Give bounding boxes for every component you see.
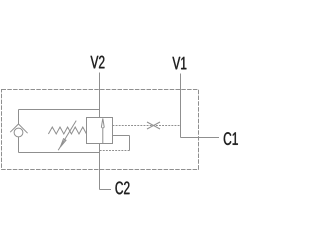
poppet stem wire	[102, 129, 104, 144]
wire: V1 port line	[180, 74, 182, 138]
check valve ball	[14, 128, 23, 137]
spring adjustment arrow head	[60, 139, 66, 147]
port label C1	[224, 132, 238, 145]
pilot drain dotted wire	[100, 150, 130, 152]
spring	[48, 127, 86, 134]
spring adjustment arrow shaft	[58, 121, 76, 151]
valve body dashed boundary	[2, 90, 199, 170]
port label V1	[172, 57, 186, 69]
port label C2	[116, 182, 130, 195]
pilot drain wire horizontal	[113, 135, 130, 137]
port label V2	[91, 56, 105, 69]
wire: C2 port stub	[100, 189, 112, 191]
inner circuit bottom wire	[19, 152, 100, 154]
check valve seat	[10, 124, 27, 133]
wire: C2 port line	[99, 144, 101, 190]
inner circuit top wire	[19, 109, 100, 111]
pilot orifice	[147, 122, 160, 129]
pilot line to V1	[113, 125, 181, 127]
wire: C1 port line	[181, 137, 220, 139]
wire: V2 port line	[99, 73, 101, 118]
poppet arrow	[101, 118, 104, 128]
inner circuit left wire upper	[18, 110, 20, 125]
pilot drain wire vertical	[129, 136, 131, 151]
inner circuit left wire lower	[18, 137, 20, 153]
main relief valve square U1	[87, 118, 113, 144]
